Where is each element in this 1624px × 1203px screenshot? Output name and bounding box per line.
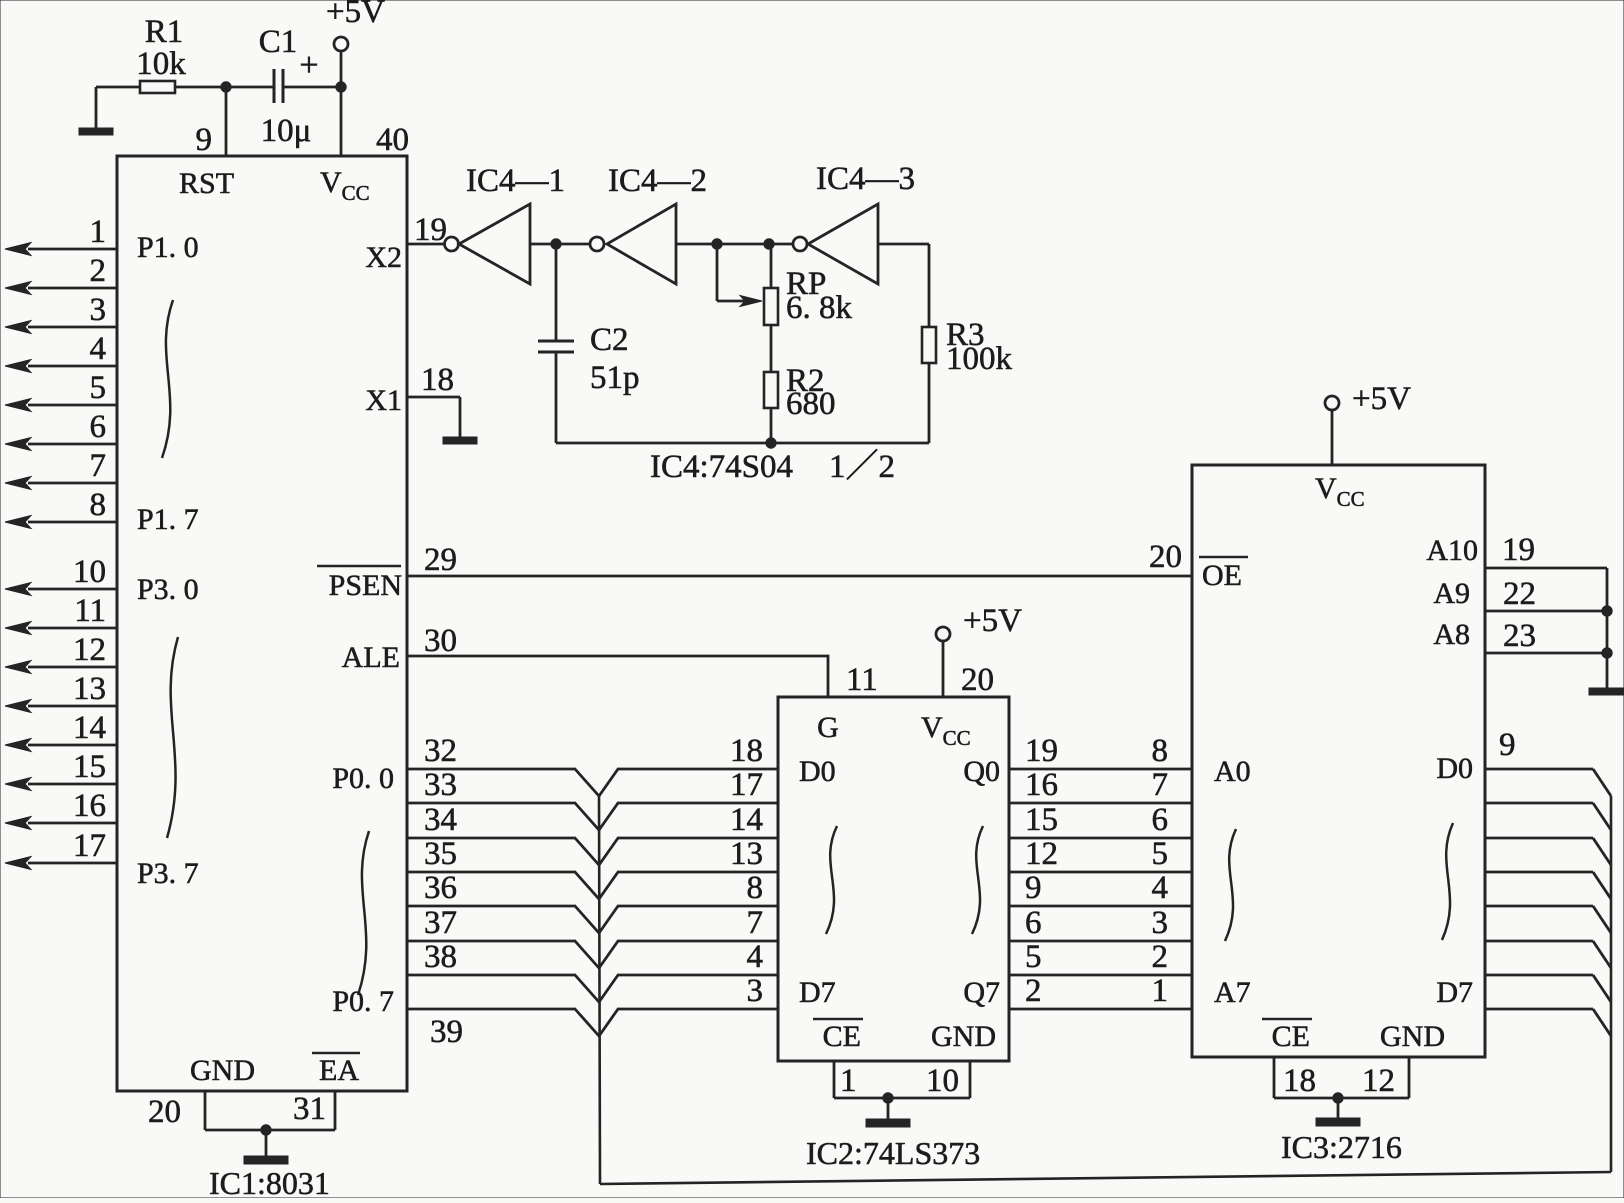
svg-text:GND: GND — [1380, 1020, 1445, 1053]
svg-text:22: 22 — [1503, 576, 1536, 612]
svg-text:20: 20 — [961, 662, 994, 698]
svg-text:2: 2 — [90, 253, 107, 289]
svg-text:13: 13 — [730, 836, 763, 872]
svg-text:6: 6 — [90, 409, 107, 445]
svg-text:31: 31 — [293, 1091, 326, 1127]
svg-text:19: 19 — [1502, 532, 1535, 568]
svg-text:7: 7 — [747, 905, 764, 941]
svg-text:30: 30 — [424, 623, 457, 659]
svg-text:3: 3 — [90, 292, 107, 328]
svg-text:40: 40 — [376, 122, 409, 158]
svg-text:1: 1 — [840, 1063, 857, 1099]
svg-text:4: 4 — [90, 331, 107, 367]
svg-text:35: 35 — [424, 836, 457, 872]
svg-text:32: 32 — [424, 733, 457, 769]
svg-text:17: 17 — [73, 828, 106, 864]
svg-text:Q7: Q7 — [963, 976, 1000, 1009]
svg-text:7: 7 — [90, 448, 107, 484]
svg-text:39: 39 — [430, 1014, 463, 1050]
svg-text:2: 2 — [1025, 973, 1042, 1009]
svg-text:34: 34 — [424, 802, 457, 838]
svg-text:4: 4 — [1152, 870, 1169, 906]
svg-text:5: 5 — [90, 370, 107, 406]
svg-text:D0: D0 — [799, 755, 836, 788]
svg-text:IC4:74S04: IC4:74S04 — [650, 449, 793, 485]
svg-text:CE: CE — [1272, 1020, 1310, 1053]
svg-text:4: 4 — [747, 939, 764, 975]
svg-text:P0. 7: P0. 7 — [332, 985, 394, 1018]
svg-text:1／2: 1／2 — [829, 449, 895, 485]
svg-text:8: 8 — [747, 870, 764, 906]
svg-text:P0. 0: P0. 0 — [332, 762, 394, 795]
svg-text:A7: A7 — [1214, 976, 1251, 1009]
svg-text:P3. 0: P3. 0 — [137, 573, 199, 606]
svg-text:OE: OE — [1202, 559, 1242, 592]
svg-text:6: 6 — [1025, 905, 1042, 941]
svg-text:X1: X1 — [365, 384, 402, 417]
svg-text:D0: D0 — [1436, 752, 1473, 785]
svg-text:33: 33 — [424, 767, 457, 803]
svg-text:9: 9 — [1025, 870, 1042, 906]
svg-text:D7: D7 — [799, 976, 836, 1009]
svg-text:PSEN: PSEN — [329, 569, 402, 602]
svg-text:37: 37 — [424, 905, 457, 941]
svg-text:9: 9 — [1499, 727, 1516, 763]
svg-text:18: 18 — [1283, 1063, 1316, 1099]
svg-text:8: 8 — [90, 487, 107, 523]
svg-text:36: 36 — [424, 870, 457, 906]
svg-text:10: 10 — [73, 554, 106, 590]
svg-text:IC3:2716: IC3:2716 — [1281, 1129, 1402, 1165]
svg-text:3: 3 — [747, 973, 764, 1009]
svg-text:A0: A0 — [1214, 755, 1251, 788]
svg-text:+5V: +5V — [963, 603, 1022, 639]
svg-text:680: 680 — [786, 386, 836, 422]
svg-text:1: 1 — [90, 214, 107, 250]
svg-text:C2: C2 — [590, 322, 629, 358]
svg-text:A10: A10 — [1426, 534, 1478, 567]
svg-text:IC4—1: IC4—1 — [466, 163, 565, 199]
svg-text:GND: GND — [931, 1020, 996, 1053]
svg-text:5: 5 — [1152, 836, 1169, 872]
svg-text:P3. 7: P3. 7 — [137, 857, 199, 890]
svg-text:13: 13 — [73, 671, 106, 707]
svg-text:EA: EA — [319, 1054, 359, 1087]
svg-text:100k: 100k — [946, 341, 1013, 377]
svg-text:3: 3 — [1152, 905, 1169, 941]
svg-text:10: 10 — [926, 1063, 959, 1099]
svg-text:19: 19 — [414, 212, 447, 248]
svg-text:P1. 7: P1. 7 — [137, 503, 199, 536]
svg-text:ALE: ALE — [342, 641, 400, 674]
svg-text:12: 12 — [73, 632, 106, 668]
svg-text:5: 5 — [1025, 939, 1042, 975]
svg-text:2: 2 — [1152, 939, 1169, 975]
svg-text:8: 8 — [1152, 733, 1169, 769]
svg-text:15: 15 — [73, 749, 106, 785]
svg-text:14: 14 — [73, 710, 106, 746]
svg-text:+5V: +5V — [1352, 381, 1411, 417]
svg-text:51p: 51p — [590, 360, 640, 396]
svg-text:10k: 10k — [136, 46, 186, 82]
svg-text:11: 11 — [846, 662, 878, 698]
svg-text:IC4—2: IC4—2 — [608, 163, 707, 199]
svg-text:15: 15 — [1025, 802, 1058, 838]
svg-text:9: 9 — [196, 122, 213, 158]
svg-text:C1: C1 — [259, 24, 298, 60]
svg-text:7: 7 — [1152, 767, 1169, 803]
svg-text:16: 16 — [73, 788, 106, 824]
svg-text:A8: A8 — [1433, 618, 1470, 651]
svg-text:11: 11 — [74, 593, 106, 629]
svg-text:10μ: 10μ — [261, 113, 312, 149]
svg-text:+5V: +5V — [326, 0, 385, 30]
svg-text:6: 6 — [1152, 802, 1169, 838]
svg-text:1: 1 — [1152, 973, 1169, 1009]
svg-text:18: 18 — [421, 362, 454, 398]
svg-text:16: 16 — [1025, 767, 1058, 803]
svg-text:G: G — [817, 711, 839, 744]
svg-text:6. 8k: 6. 8k — [786, 290, 853, 326]
svg-text:P1. 0: P1. 0 — [137, 231, 199, 264]
svg-text:IC2:74LS373: IC2:74LS373 — [806, 1135, 980, 1171]
svg-text:IC4—3: IC4—3 — [816, 161, 915, 197]
svg-text:+: + — [299, 47, 318, 84]
svg-text:20: 20 — [148, 1094, 181, 1130]
svg-text:19: 19 — [1025, 733, 1058, 769]
svg-text:CE: CE — [823, 1020, 861, 1053]
svg-text:29: 29 — [424, 542, 457, 578]
svg-text:R1: R1 — [145, 14, 184, 50]
svg-text:18: 18 — [730, 733, 763, 769]
svg-text:X2: X2 — [365, 241, 402, 274]
svg-text:12: 12 — [1362, 1063, 1395, 1099]
svg-text:14: 14 — [730, 802, 763, 838]
svg-text:38: 38 — [424, 939, 457, 975]
svg-text:A9: A9 — [1433, 577, 1470, 610]
svg-text:Q0: Q0 — [963, 755, 1000, 788]
svg-text:17: 17 — [730, 767, 763, 803]
svg-text:D7: D7 — [1436, 976, 1473, 1009]
svg-text:12: 12 — [1025, 836, 1058, 872]
svg-text:IC1:8031: IC1:8031 — [209, 1165, 330, 1198]
svg-text:RST: RST — [179, 167, 234, 200]
svg-text:20: 20 — [1149, 539, 1182, 575]
svg-text:GND: GND — [190, 1054, 255, 1087]
svg-text:23: 23 — [1503, 618, 1536, 654]
